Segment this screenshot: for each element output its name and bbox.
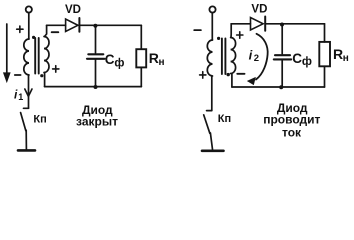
junction node (top, cap branch) [280,23,284,27]
bottom terminal T-bar (left) [18,149,35,152]
wire terminal to primary winding [28,13,30,39]
svg-text:ф: ф [302,56,312,68]
label Rн (right) [333,46,349,64]
capacitor Cф plates (left) [87,54,105,59]
label − (secondary bottom) [237,73,244,75]
wire primary bottom down to switch [28,75,30,108]
svg-text:R: R [149,50,159,66]
label Rн (left) [149,50,165,68]
transformer core [35,38,39,74]
svg-text:закрыт: закрыт [76,114,118,128]
svg-text:C: C [292,51,302,66]
diode VD (left) [66,18,80,32]
transformer T1 primary winding (bumps left) [24,39,29,75]
resistor bottom lead [140,67,142,86]
polarity dot primary (top) [32,36,35,39]
current arrow i1 (open V arrowhead on wire) [25,89,32,96]
wire secondary bottom down [44,73,46,87]
label − (primary top) [194,29,201,31]
resistor Rн body (right) [319,42,330,66]
capacitor C1 bottom lead [95,59,97,87]
label Cф (left) [105,52,125,69]
polarity dot secondary (bottom) [227,73,230,76]
label i1 [14,87,23,102]
wire secondary top to top rail [45,25,47,36]
label Cф (right) [292,51,312,68]
EMF arrow (primary voltage arrow, pointing down) [4,24,11,82]
svg-text:1: 1 [18,92,23,102]
label i2 [249,47,259,64]
junction node (top, cap branch) [93,24,97,28]
resistor Rн body (left) [136,49,146,67]
svg-text:проводит: проводит [263,113,320,127]
caption "Диод закрыт" [76,103,118,128]
svg-text:VD: VD [65,4,81,16]
junction node (bottom, cap branch) [94,85,98,89]
bottom wire of output loop [45,86,142,88]
top wire (secondary top to diode anode) [231,23,250,25]
svg-text:ток: ток [282,126,302,140]
wire terminal to primary winding [211,13,213,40]
caption "Диод проводит ток" [263,101,320,140]
capacitor C2 bottom lead [281,59,283,87]
bottom terminal T-bar (right) [202,150,224,153]
svg-text:Кп: Кп [218,113,231,125]
svg-text:VD: VD [251,3,267,15]
transformer T1 secondary winding (bumps right) [44,37,49,73]
svg-text:ф: ф [114,57,124,69]
label + (secondary bottom) [53,66,59,72]
transformer core [222,39,226,75]
input terminal (circle) [26,6,32,12]
transformer T2 secondary winding (bumps right) [231,38,236,74]
bottom wire of output loop [232,86,325,88]
junction node (bottom, cap branch) [279,85,283,89]
wire secondary bottom down [231,74,233,88]
svg-text:C: C [105,52,115,67]
switch Кп blade (open) [204,115,210,133]
switch Кп contact tick [24,107,29,109]
wire top corner down to resistor [324,24,326,42]
switch Кп blade (open) [21,113,26,131]
capacitor C2 top lead [281,25,283,54]
input terminal (circle) [209,6,215,12]
capacitor Cф plates (right) [274,55,291,59]
wire top corner down to resistor [140,25,142,49]
resistor bottom lead [324,66,326,87]
polarity dot primary (top) [217,37,220,40]
polarity dot secondary (bottom) [40,74,43,77]
transformer T2 primary winding (bumps left) [207,40,212,76]
label − (primary bottom) [15,74,21,76]
wire switch to bottom terminal [25,130,27,149]
wire primary bottom down to switch [211,76,213,110]
wire switch to bottom terminal [210,133,212,149]
label − (secondary top) [52,31,59,33]
svg-text:R: R [333,46,343,62]
wire secondary top to top rail [230,24,232,38]
capacitor C1 top lead [95,26,97,53]
current loop arrow i2 (clockwise arc) [248,34,268,85]
switch Кп contact tick [207,110,212,112]
top wire (secondary top to diode anode) [47,24,66,26]
wire diode cathode to corner [79,24,141,26]
svg-text:i: i [249,47,253,62]
label + (primary bottom) [200,72,206,78]
svg-text:Кп: Кп [33,114,46,126]
label + (secondary top) [237,32,243,38]
svg-text:н: н [159,57,165,68]
svg-text:н: н [343,53,349,64]
wire diode cathode to corner [265,23,324,25]
svg-text:2: 2 [254,53,259,64]
diode VD (right) [251,17,266,31]
label + (primary top) [17,26,23,32]
